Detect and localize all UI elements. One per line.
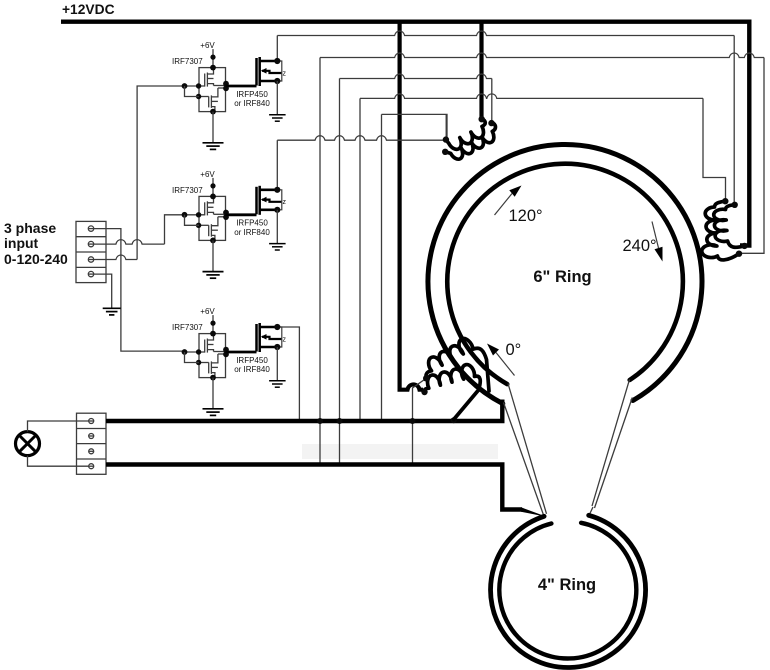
- wire U3 ground stem: [212, 378, 214, 409]
- ground phase T4: [103, 307, 121, 309]
- svg-text:or IRF840: or IRF840: [234, 99, 270, 108]
- node bus A junction dots: [317, 418, 323, 424]
- wire to coil L2-return (hop line 4): [359, 98, 361, 421]
- wire +6V feed U1: [212, 49, 214, 68]
- inductor L2a (120 deg winding, outer): [446, 119, 485, 150]
- wire +12VDC top rail: [61, 20, 749, 24]
- wire lamp to TB2 pin1: [28, 421, 89, 432]
- svg-text:IRF7307: IRF7307: [172, 57, 203, 66]
- node +6V dot U1: [210, 55, 215, 60]
- wire Q2 source to ground: [276, 210, 278, 244]
- terminal block TB1 3-phase input: [76, 221, 106, 282]
- wire Q1 drain to coil L3b top (hop line 1): [276, 36, 278, 62]
- wire Q3 drain to bus A: [277, 327, 299, 421]
- node +6V dot U3: [210, 321, 215, 326]
- wire Q2 drain to coil L1a junction: [276, 140, 278, 190]
- wire U1 output to Q1 gate: [226, 85, 257, 88]
- node dots U3 pins: [210, 331, 216, 337]
- svg-text:240°: 240°: [623, 237, 657, 255]
- wire U3 output to Q3 gate: [226, 351, 257, 354]
- svg-text:120°: 120°: [509, 207, 543, 225]
- p-MOSFET (upper) inside U2: [185, 214, 205, 216]
- wire gate jog U2: [185, 215, 200, 226]
- wire +12VDC drop to coil L2a (top-left pair): [479, 22, 483, 120]
- inductor L3a (240 deg winding, outer): [702, 201, 739, 260]
- ground Q2: [269, 243, 286, 245]
- svg-text:IRF7307: IRF7307: [172, 323, 203, 332]
- svg-text:+6V: +6V: [200, 41, 215, 50]
- 6 inch ring inner: [447, 164, 683, 384]
- terminal block TB2 lamp: [77, 413, 107, 474]
- svg-text:z: z: [282, 336, 286, 343]
- p-MOSFET (upper) inside U3: [185, 351, 205, 353]
- wire lamp to TB2 pin4: [28, 456, 89, 467]
- svg-text:input: input: [4, 235, 39, 251]
- wire phase T1 to driver U3: [93, 229, 184, 352]
- gate driver U2 IRF7307 box: [199, 196, 226, 240]
- svg-text:0-120-240: 0-120-240: [4, 251, 68, 267]
- 6 inch ring outer: [428, 145, 702, 404]
- wire bus A (TB2 pin1): [106, 400, 502, 422]
- wire funnel left: [508, 384, 547, 514]
- svg-text:+6V: +6V: [200, 307, 215, 316]
- node coil L1 dots: [423, 375, 429, 381]
- wire phase T2 to driver U2: [93, 240, 164, 245]
- wire Q1 source to ground: [276, 81, 278, 115]
- wire +12VDC right drop to coil L3b: [740, 20, 749, 246]
- arrow 240 deg: [652, 222, 659, 249]
- 4 inch ring inner: [499, 523, 636, 659]
- wire gate jog U1: [185, 86, 200, 97]
- wire U2 output to Q2 gate: [226, 213, 257, 216]
- wire gate jog U3: [185, 352, 200, 363]
- wire coil L1a top junction drop: [445, 114, 447, 139]
- node dots U2 pins: [210, 194, 216, 200]
- gate driver U3 IRF7307 box: [199, 334, 226, 378]
- arrow 0 deg: [496, 353, 515, 376]
- wire bus B (TB2 pin4) to 4in ring: [106, 465, 522, 510]
- svg-text:+12VDC: +12VDC: [62, 2, 115, 17]
- wire to coil L2b top (hop line 3): [339, 79, 341, 422]
- svg-text:0°: 0°: [506, 341, 522, 359]
- node coil L3 dots: [722, 198, 728, 204]
- svg-text:4" Ring: 4" Ring: [538, 576, 596, 594]
- wire U1 ground stem: [212, 112, 214, 143]
- p-MOSFET (upper) inside U1: [185, 85, 205, 87]
- inductor L3b (240 deg winding, inner): [714, 205, 745, 248]
- wire coil L1a lead to bus A: [413, 378, 427, 464]
- n-MOSFET (lower) inside U2: [199, 224, 209, 226]
- wire bus A to bus B link 2: [339, 421, 341, 465]
- svg-text:6" Ring: 6" Ring: [533, 268, 591, 286]
- svg-text:IRF7307: IRF7307: [172, 186, 203, 195]
- ground Q3: [269, 380, 286, 382]
- ground U3: [203, 408, 224, 410]
- n-MOSFET (lower) inside U3: [199, 362, 209, 364]
- svg-text:z: z: [282, 199, 286, 206]
- svg-text:+6V: +6V: [200, 170, 215, 179]
- power MOSFET Q3 IRFP450: [255, 324, 258, 352]
- svg-text:z: z: [282, 70, 286, 77]
- ground Q1: [269, 114, 286, 116]
- 4 inch ring outer: [491, 515, 646, 667]
- wire output node U3: [214, 351, 226, 353]
- wire phase T3 to driver U1: [93, 255, 137, 260]
- svg-text:3 phase: 3 phase: [4, 220, 56, 236]
- node coil L2 dots: [479, 116, 485, 122]
- wire to coil L3a bottom (hop line 2): [319, 58, 321, 422]
- n-MOSFET (lower) inside U1: [199, 96, 209, 98]
- svg-text:IRFP450: IRFP450: [236, 356, 268, 365]
- wire +12VDC drop to coil L1b (bottom-left pair): [400, 22, 423, 390]
- wire funnel right: [592, 380, 630, 507]
- inductor L1a (0 deg winding, outer): [426, 339, 489, 391]
- ground U1: [203, 142, 224, 144]
- wire phase T4 to ground: [93, 274, 112, 308]
- lamp LP1: [16, 432, 40, 456]
- node +6V dot U2: [210, 183, 215, 188]
- wire output node U1: [214, 85, 226, 87]
- gate driver U1 IRF7307 box: [199, 68, 226, 112]
- wire junction drop to bus A: [382, 114, 448, 139]
- wire Q3 source to ground: [276, 347, 278, 381]
- arrow 120 deg: [495, 194, 513, 216]
- wire output node U2: [214, 213, 226, 215]
- power MOSFET Q1 IRFP450: [255, 58, 258, 86]
- ground U2: [203, 271, 224, 273]
- svg-text:or IRF840: or IRF840: [234, 365, 270, 374]
- wire bus A to bus B link 1: [319, 421, 321, 465]
- inductor L2b (120 deg winding, inner): [445, 122, 495, 159]
- wire +6V feed U2: [212, 178, 214, 197]
- wire +6V feed U3: [212, 315, 214, 334]
- wire U2 ground stem: [212, 240, 214, 271]
- svg-text:IRFP450: IRFP450: [236, 90, 268, 99]
- node dots U1 pins: [210, 65, 216, 71]
- inductor L1b (0 deg winding, inner): [424, 365, 480, 420]
- svg-text:or IRF840: or IRF840: [234, 228, 270, 237]
- svg-text:IRFP450: IRFP450: [236, 219, 268, 228]
- power MOSFET Q2 IRFP450: [255, 187, 258, 215]
